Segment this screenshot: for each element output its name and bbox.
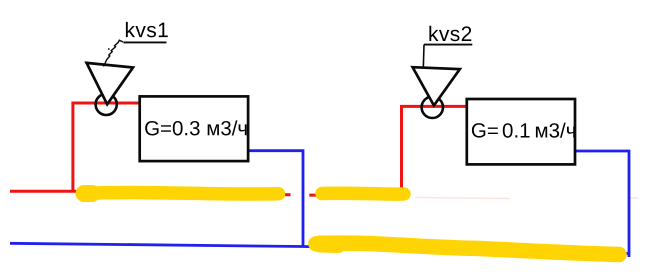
svg-text:kvs2: kvs2: [428, 23, 473, 46]
svg-text:G=0.1м3/ч: G=0.1м3/ч: [471, 119, 577, 142]
svg-text:G=0.3 м3/ч: G=0.3 м3/ч: [144, 117, 248, 140]
svg-text:kvs1: kvs1: [124, 19, 169, 42]
